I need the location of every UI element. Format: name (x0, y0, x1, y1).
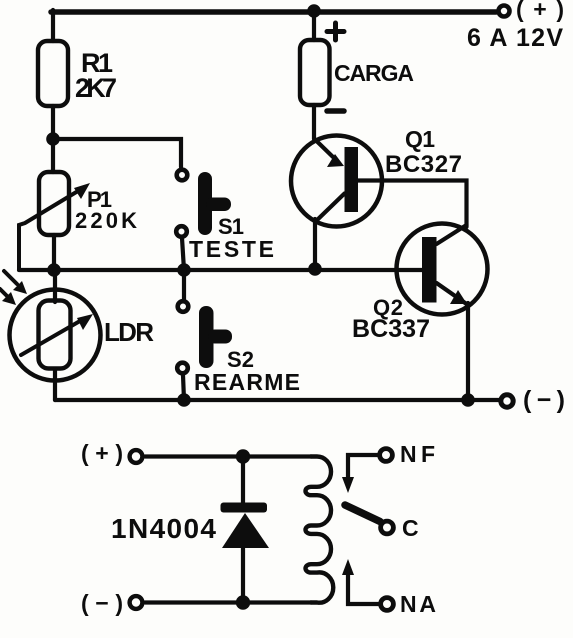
minus mark (327, 108, 344, 114)
svg-text:BC337: BC337 (352, 315, 430, 343)
switch S2 contact top (178, 301, 189, 312)
photoresistor LDR (10, 290, 101, 381)
contact C terminal (381, 521, 394, 534)
load CARGA (300, 40, 330, 105)
node Q2 emitter junction (461, 393, 475, 407)
wire left rail R1 top lead (51, 10, 55, 41)
wire LDR bottom lead (53, 369, 57, 400)
node diode top junction (236, 449, 250, 463)
relay coil K1 (305, 456, 333, 602)
wire relay bottom (145, 600, 311, 604)
wire P1 bottom lead (52, 235, 56, 270)
wire node to S1 top (53, 139, 181, 167)
node R1/P1/S1 junction (46, 132, 60, 146)
potentiometer P1 (19, 172, 90, 270)
transistor Q2 (397, 224, 488, 315)
wire S1 bottom to node (182, 238, 184, 270)
switch S1 button (198, 172, 231, 235)
svg-text:Q1: Q1 (405, 126, 435, 152)
node S2 bottom junction (177, 393, 191, 407)
switch S2 contact bottom (177, 363, 188, 374)
plus mark (327, 23, 344, 40)
relay lever (345, 505, 380, 522)
wire relay top (145, 454, 311, 458)
contact NA terminal (381, 598, 394, 611)
wire P1 top lead (51, 139, 55, 172)
switch S1 contact bottom (176, 226, 187, 237)
svg-text:(−): (−) (81, 590, 123, 616)
node S1/S2 junction (177, 263, 191, 277)
terminal (+) 12V (499, 6, 510, 17)
resistor R1 (38, 41, 68, 106)
node diode bottom junction (236, 595, 250, 609)
transistor Q1 (291, 136, 382, 227)
contact NF terminal (380, 449, 393, 462)
svg-text:(+): (+) (81, 440, 123, 466)
wire CARGA top lead (312, 12, 316, 40)
svg-text:220K: 220K (75, 208, 137, 233)
light arrow 1 (4, 271, 27, 294)
svg-text:(−): (−) (523, 386, 565, 414)
wire CARGA bottom lead (312, 105, 316, 139)
wire S2 bottom to rail (183, 375, 184, 400)
wire NA arm with arrow (342, 559, 378, 604)
switch S1 contact top (177, 170, 188, 181)
terminal relay (+) (130, 450, 143, 463)
wire top positive rail (51, 9, 496, 15)
svg-text:(+): (+) (516, 0, 564, 22)
wire Q1 base to Q2 collector (358, 181, 467, 228)
svg-text:REARME: REARME (194, 369, 300, 395)
svg-text:TESTE: TESTE (189, 236, 274, 262)
terminal (-) (501, 395, 513, 407)
diode D1 1N4004 (221, 456, 270, 603)
svg-text:6 A 12V: 6 A 12V (467, 24, 563, 52)
switch S2 button (199, 306, 232, 368)
wire R1 bottom lead (51, 106, 55, 139)
wire middle node rail (19, 268, 424, 272)
wire LDR top lead (53, 270, 57, 302)
svg-text:CARGA: CARGA (334, 60, 414, 86)
svg-text:LDR: LDR (104, 317, 154, 347)
svg-text:C: C (402, 515, 419, 541)
svg-text:2K7: 2K7 (75, 73, 117, 103)
node CARGA top junction (307, 4, 321, 18)
wire NF arm with arrow (342, 455, 377, 493)
terminal relay (-) (130, 596, 143, 609)
wire S2 top lead (182, 270, 186, 299)
node P1/LDR junction (47, 263, 61, 277)
node Q1 collector / Q2 base junction (308, 262, 322, 276)
wire Q2 emitter down (466, 303, 470, 400)
wire bottom rail (55, 398, 499, 402)
light arrow 2 (0, 289, 16, 305)
wire Q1 collector down (313, 219, 317, 269)
svg-text:BC327: BC327 (385, 151, 462, 178)
